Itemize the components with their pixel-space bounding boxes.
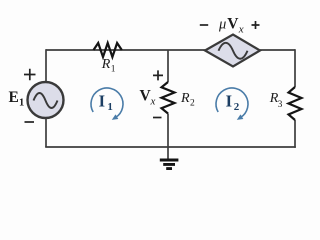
- wire left vertical lower: [45, 117, 47, 147]
- svg-text:E: E: [9, 89, 19, 106]
- svg-text:1: 1: [107, 101, 113, 113]
- svg-text:2: 2: [234, 101, 240, 113]
- svg-text:3: 3: [278, 100, 283, 110]
- label -uVx+: [200, 24, 208, 26]
- wire bottom horizontal: [45, 146, 296, 148]
- wire right vertical lower: [294, 120, 296, 148]
- resistor R1: [94, 43, 122, 57]
- wire left vertical upper: [45, 49, 47, 83]
- minus sign of Vx: [153, 117, 162, 119]
- svg-text:2: 2: [190, 99, 195, 109]
- minus sign of E1: [25, 121, 35, 123]
- svg-text:1: 1: [111, 65, 116, 75]
- wire middle branch lower: [167, 114, 169, 148]
- resistor R2: [162, 82, 175, 114]
- svg-text:I: I: [99, 92, 105, 111]
- wire top-left horizontal: [46, 49, 205, 51]
- svg-text:V: V: [227, 16, 239, 33]
- resistor R3: [289, 87, 302, 120]
- svg-text:I: I: [226, 92, 232, 111]
- mesh current I2 arc: [216, 88, 248, 118]
- ac source E1: [28, 82, 64, 118]
- wire top-right horizontal: [260, 49, 295, 51]
- ground: [160, 160, 179, 169]
- svg-text:1: 1: [19, 98, 24, 109]
- svg-text:x: x: [238, 24, 244, 36]
- svg-text:x: x: [150, 96, 156, 108]
- plus sign of Vx: [153, 70, 163, 80]
- wire middle branch upper: [167, 50, 169, 82]
- dependent source diamond: [205, 35, 260, 67]
- svg-text:R: R: [101, 57, 111, 72]
- mesh current I1 arc: [91, 88, 123, 118]
- wire right vertical upper: [294, 49, 296, 87]
- svg-text:R: R: [180, 91, 190, 106]
- svg-text:μ: μ: [218, 17, 226, 33]
- plus sign of E1: [24, 69, 36, 80]
- wire ground stem: [167, 147, 169, 159]
